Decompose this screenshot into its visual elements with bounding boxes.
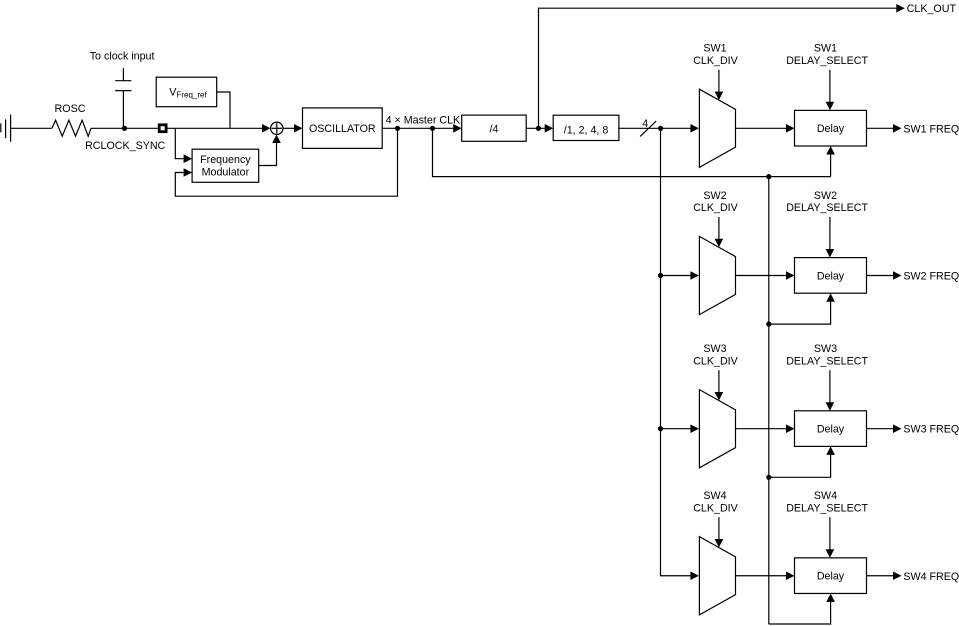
label SW2 DELAY_SELECT (786, 190, 868, 214)
wire mux SW4 output to delay (736, 575, 787, 577)
node junction at capacitor (122, 126, 127, 131)
pin RCLOCK_SYNC (square port) (85, 125, 166, 152)
wire DELAY_SELECT into delay SW1 (829, 70, 831, 104)
arrow into mux SW3 (690, 424, 699, 433)
svg-text:SW2: SW2 (814, 190, 837, 202)
arrow into /1,2,4,8 divider (545, 124, 554, 133)
node master clock branch junction (430, 126, 435, 131)
svg-text:DELAY_SELECT: DELAY_SELECT (786, 502, 868, 514)
svg-text:Delay: Delay (817, 571, 845, 583)
svg-text:SW3: SW3 (703, 343, 726, 355)
ground (1, 115, 11, 142)
arrow SW4 FREQ (893, 571, 902, 580)
block delay SW4 (795, 558, 867, 594)
arrow into delay SW4 bottom (826, 593, 835, 602)
node delay rail junction SW3 (766, 475, 771, 480)
block delay SW1 (795, 110, 867, 146)
arrow DELAY_SELECT into delay SW4 (826, 549, 835, 558)
arrow DELAY_SELECT into delay SW1 (826, 102, 835, 111)
node mux bus junction SW2 (658, 273, 663, 278)
wire mux SW2 output to delay (736, 275, 787, 277)
svg-text:4 × Master CLK: 4 × Master CLK (386, 115, 461, 127)
arrow into summer bottom (272, 135, 281, 144)
svg-text:Frequency: Frequency (200, 154, 251, 166)
svg-text:/4: /4 (490, 123, 499, 135)
svg-text:Delay: Delay (817, 424, 845, 436)
block VFreq_ref (156, 77, 217, 107)
label SW3 CLK_DIV (693, 343, 738, 367)
svg-text:/1, 2, 4, 8: /1, 2, 4, 8 (564, 125, 609, 137)
block delay SW2 (795, 258, 867, 294)
svg-text:SW1 FREQ: SW1 FREQ (903, 123, 959, 135)
wire to CLK_OUT (539, 8, 897, 128)
arrow into delay SW1 bottom (826, 146, 835, 155)
arrow SW2 FREQ (893, 271, 902, 280)
svg-text:4: 4 (642, 118, 648, 130)
arrow into delay SW1 (786, 124, 795, 133)
wire mux input SW2 (661, 275, 691, 277)
wire delay rail feed into delay SW3 bottom (769, 453, 831, 478)
wire delay rail feed into delay SW1 bottom (830, 152, 832, 176)
wire delay SW1 output (867, 127, 894, 129)
wire DELAY_SELECT into delay SW4 (829, 517, 831, 551)
mux SW3 CLK_DIV (trapezoid) (699, 390, 735, 468)
svg-text:Modulator: Modulator (202, 167, 250, 179)
wire ground to resistor (11, 127, 52, 129)
capacitor to clock input (90, 50, 155, 128)
svg-text:Delay: Delay (817, 123, 845, 135)
svg-text:CLK_DIV: CLK_DIV (693, 55, 738, 67)
label SW4 DELAY_SELECT (786, 490, 868, 514)
node mux bus junction SW3 (658, 426, 663, 431)
arrow CLK_DIV into mux SW4 (715, 539, 724, 548)
arrow SW3 FREQ (893, 424, 902, 433)
svg-text:CLK_DIV: CLK_DIV (693, 202, 738, 214)
svg-text:Delay: Delay (817, 270, 845, 282)
svg-text:CLK_DIV: CLK_DIV (693, 502, 738, 514)
wire CLK_DIV select into mux SW2 (718, 217, 720, 240)
svg-text:DELAY_SELECT: DELAY_SELECT (786, 355, 868, 367)
svg-text:To clock input: To clock input (90, 50, 155, 62)
wire delay SW4 output (867, 575, 894, 577)
wire summer to oscillator (283, 127, 295, 129)
node delay rail junction (766, 174, 771, 179)
wire junction to pin (125, 127, 158, 129)
block frequency modulator (192, 149, 259, 182)
node mux bus junction SW1 (658, 126, 663, 131)
svg-text:SW3 FREQ: SW3 FREQ (903, 424, 959, 436)
block oscillator U1 (303, 108, 383, 148)
node feedback junction (395, 126, 400, 131)
svg-text:SW1: SW1 (703, 43, 726, 55)
wire master clock down to delay feed rail (433, 128, 831, 176)
svg-text:RCLOCK_SYNC: RCLOCK_SYNC (85, 140, 165, 152)
wire CLK_DIV select into mux SW4 (718, 517, 720, 540)
bus width slash (640, 121, 656, 136)
wire delay rail feed into delay SW4 bottom (769, 600, 831, 624)
wire delay SW2 output (867, 275, 894, 277)
mux SW2 CLK_DIV (trapezoid) (699, 236, 735, 314)
label SW3 DELAY_SELECT (786, 343, 868, 367)
svg-text:SW3: SW3 (814, 343, 837, 355)
label SW1 CLK_DIV (693, 43, 738, 67)
arrow into frequency modulator input 2 (184, 168, 193, 177)
arrow into mux SW2 (690, 271, 699, 280)
wire resistor to cap junction (91, 127, 125, 129)
wire CLK_DIV select into mux SW1 (718, 70, 720, 93)
wire mux input SW3 (661, 428, 691, 430)
arrow into delay SW2 bottom (826, 293, 835, 302)
wire CLK_DIV select into mux SW3 (718, 370, 720, 393)
wire delay rail down bus (768, 177, 770, 624)
label SW4 CLK_DIV (693, 490, 738, 514)
label SW2 CLK_DIV (693, 190, 738, 214)
arrow into delay SW4 (786, 571, 795, 580)
wire mux bus down (661, 128, 691, 575)
wire /4 output (526, 127, 545, 129)
svg-text:OSCILLATOR: OSCILLATOR (309, 123, 376, 135)
arrow DELAY_SELECT into delay SW2 (826, 249, 835, 258)
arrow CLK_DIV into mux SW3 (715, 392, 724, 401)
svg-text:SW4: SW4 (814, 490, 837, 502)
mux SW1 CLK_DIV (trapezoid) (699, 89, 735, 167)
wire V_Freq_ref tee join (217, 92, 230, 128)
arrow into delay SW3 (786, 424, 795, 433)
wire oscillator output (382, 127, 454, 129)
wire DELAY_SELECT into delay SW2 (829, 217, 831, 251)
arrow SW1 FREQ (893, 124, 902, 133)
svg-text:CLK_OUT: CLK_OUT (907, 3, 957, 15)
svg-text:SW1: SW1 (814, 43, 837, 55)
wire mux SW1 output to delay (736, 127, 787, 129)
arrow into oscillator (294, 124, 303, 133)
wire feedback to frequency modulator input 2 (175, 128, 397, 196)
node CLK_OUT branch junction (536, 126, 541, 131)
wire divider output to mux bus (619, 127, 695, 129)
wire mux SW3 output to delay (736, 428, 787, 430)
wire branch down to frequency modulator input 1 (175, 128, 183, 158)
arrow DELAY_SELECT into delay SW3 (826, 402, 835, 411)
arrow into mux SW4 (690, 571, 699, 580)
resistor ROSC (52, 103, 91, 136)
block divider /4 (462, 115, 527, 141)
arrow into frequency modulator input 1 (184, 154, 193, 163)
block delay SW3 (795, 411, 867, 447)
arrow into mux SW1 (690, 124, 699, 133)
arrow CLK_DIV into mux SW2 (715, 239, 724, 248)
svg-text:DELAY_SELECT: DELAY_SELECT (786, 55, 868, 67)
wire delay SW3 output (867, 428, 894, 430)
svg-text:ROSC: ROSC (55, 103, 86, 115)
wire delay rail feed into delay SW2 bottom (769, 300, 831, 325)
arrow into summing junction (262, 124, 271, 133)
wire DELAY_SELECT into delay SW3 (829, 370, 831, 404)
arrow CLK_DIV into mux SW1 (715, 92, 724, 101)
node delay rail junction SW2 (766, 322, 771, 327)
wire pin to summing junction (167, 127, 263, 129)
svg-text:SW4: SW4 (703, 490, 726, 502)
mux SW4 CLK_DIV (trapezoid) (699, 537, 735, 615)
svg-text:DELAY_SELECT: DELAY_SELECT (786, 202, 868, 214)
svg-text:SW2: SW2 (703, 190, 726, 202)
block divider /1,2,4,8 (553, 115, 619, 140)
arrow into delay SW2 (786, 271, 795, 280)
wire frequency modulator output to summer (259, 143, 277, 166)
svg-text:SW2 FREQ: SW2 FREQ (903, 271, 959, 283)
arrow CLK_OUT (896, 4, 905, 13)
arrow into /4 divider (453, 124, 462, 133)
summing junction (271, 122, 283, 134)
svg-text:SW4 FREQ: SW4 FREQ (903, 571, 959, 583)
label SW1 DELAY_SELECT (786, 43, 868, 67)
arrow into delay SW3 bottom (826, 446, 835, 455)
svg-text:CLK_DIV: CLK_DIV (693, 355, 738, 367)
